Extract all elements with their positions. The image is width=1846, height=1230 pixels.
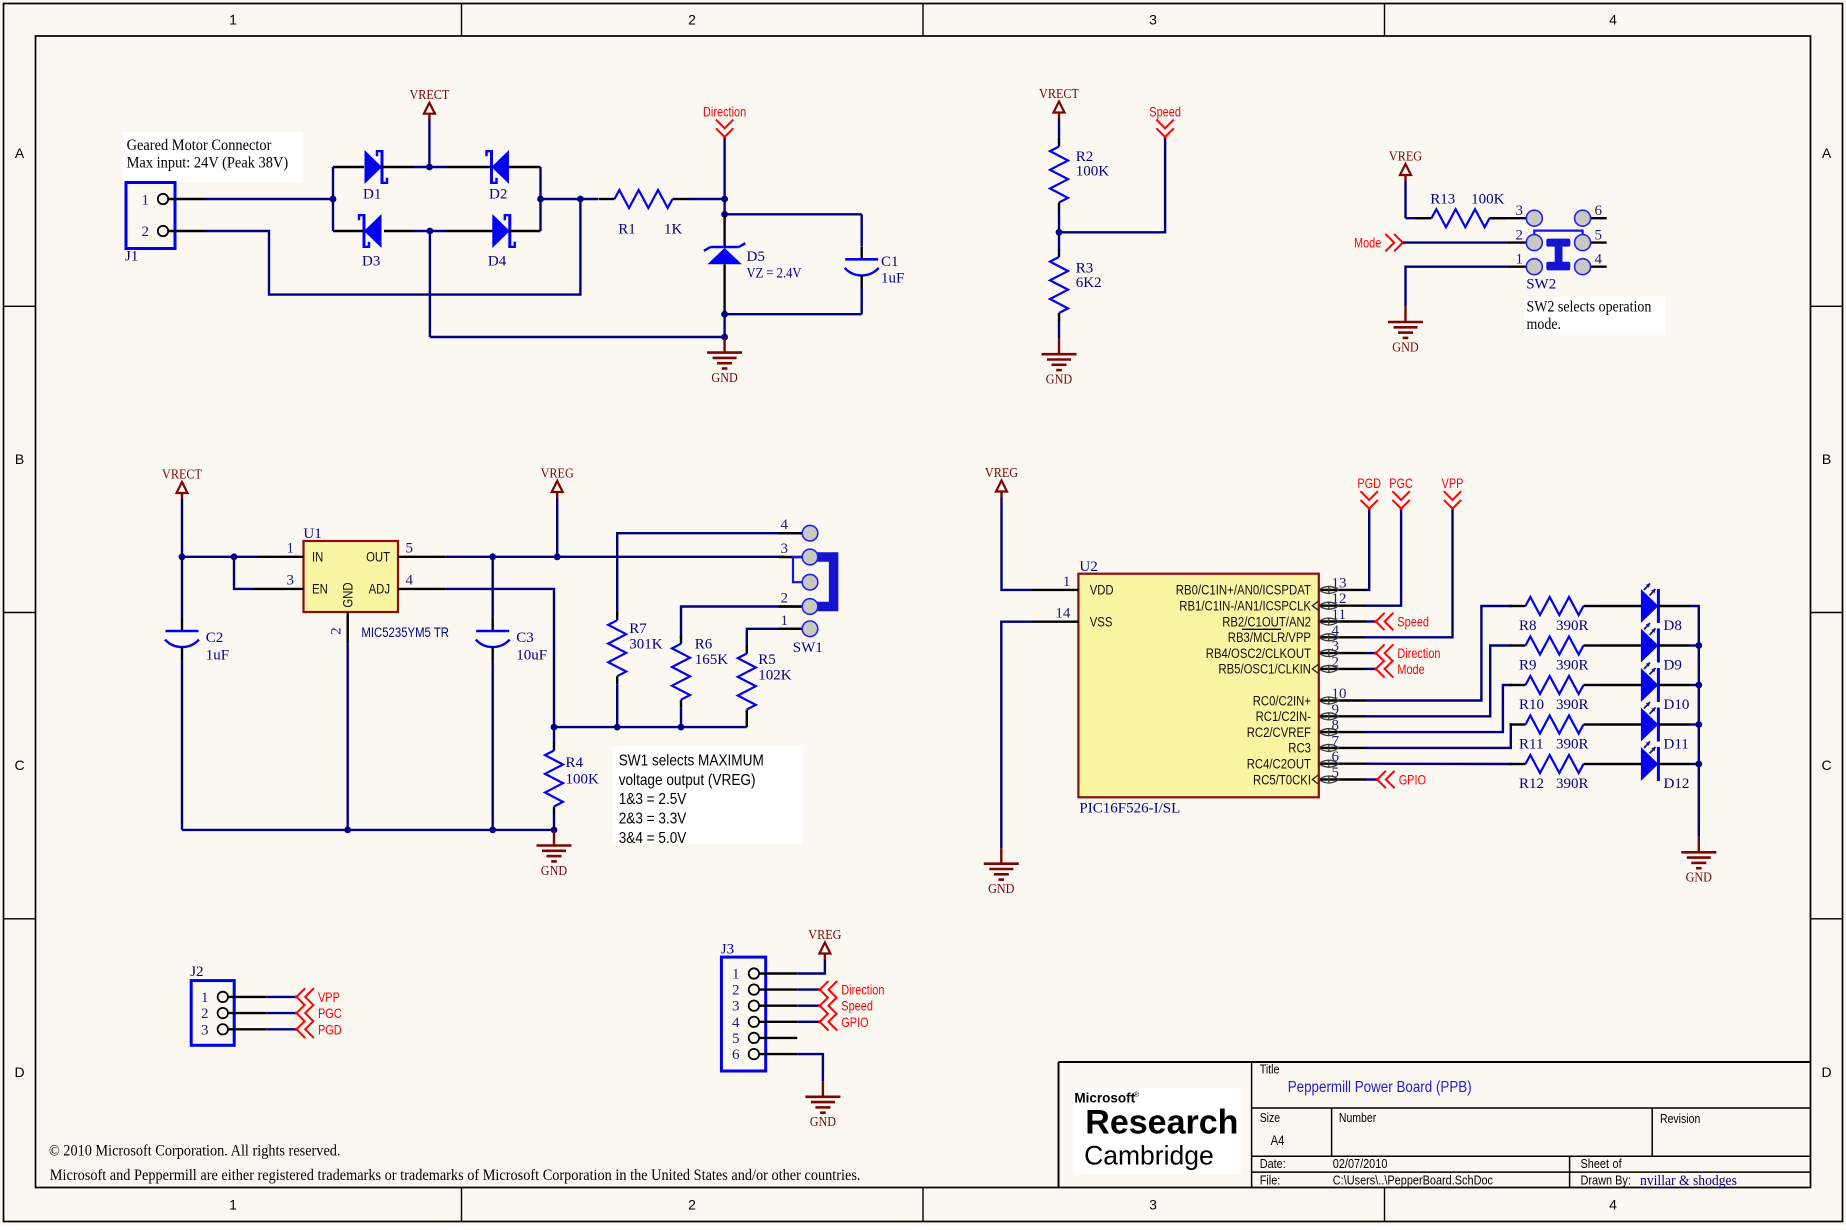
resistor R8 — [1510, 597, 1600, 634]
svg-text:D1: D1 — [363, 186, 381, 202]
wire pin12 to PGC flag — [1366, 509, 1401, 606]
svg-text:U1: U1 — [303, 526, 321, 542]
signal flag Direction — [703, 104, 746, 200]
svg-text:File:: File: — [1260, 1172, 1281, 1187]
svg-text:SW1 selects MAXIMUM: SW1 selects MAXIMUM — [619, 752, 764, 769]
svg-text:C: C — [14, 757, 24, 773]
svg-text:EN: EN — [312, 582, 328, 597]
copyright text — [49, 1143, 861, 1184]
svg-text:1: 1 — [229, 1197, 237, 1213]
wire J2 pin1 to VPP flag — [266, 996, 296, 998]
svg-text:of: of — [1613, 1156, 1622, 1171]
svg-text:RB0/C1IN+/AN0/ICSPDAT: RB0/C1IN+/AN0/ICSPDAT — [1176, 583, 1311, 598]
svg-text:6: 6 — [1595, 203, 1603, 219]
svg-text:VRECT: VRECT — [1039, 87, 1079, 102]
svg-text:VRECT: VRECT — [162, 468, 202, 483]
svg-text:Cambridge: Cambridge — [1084, 1141, 1214, 1171]
svg-text:Title: Title — [1260, 1063, 1280, 1077]
svg-text:1: 1 — [1063, 574, 1071, 590]
wire U1 GND pin to rail — [347, 644, 349, 830]
signal flag PGC (J2) — [295, 1004, 342, 1021]
signal flag Direction (U2) — [1374, 644, 1440, 661]
wire pin9 to LED row2 — [1366, 646, 1512, 717]
svg-text:2: 2 — [201, 1006, 209, 1022]
svg-text:RC3: RC3 — [1288, 741, 1311, 756]
svg-text:390R: 390R — [1556, 618, 1589, 634]
svg-text:R13: R13 — [1430, 192, 1455, 208]
svg-text:RB1/C1IN-/AN1/ICSPCLK: RB1/C1IN-/AN1/ICSPCLK — [1179, 599, 1311, 614]
svg-text:R5: R5 — [758, 652, 776, 668]
wire VREG to R13 — [1406, 217, 1427, 219]
svg-text:4: 4 — [1609, 12, 1617, 28]
svg-text:GND: GND — [1392, 340, 1418, 355]
svg-text:A4: A4 — [1271, 1133, 1285, 1148]
wire pin13 to PGD flag — [1366, 509, 1369, 590]
svg-text:A: A — [1822, 145, 1832, 161]
ground symbol (LED GND) — [1681, 837, 1716, 886]
svg-text:R6: R6 — [695, 637, 713, 653]
svg-text:165K: 165K — [695, 652, 729, 668]
title block text — [1260, 1063, 1738, 1189]
signal flag Speed (U2) — [1374, 613, 1429, 630]
text note: Geared Motor Connector — [123, 132, 303, 183]
svg-text:VREG: VREG — [808, 928, 841, 943]
svg-text:RB3/MCLR/VPP: RB3/MCLR/VPP — [1228, 630, 1311, 645]
svg-text:R10: R10 — [1519, 697, 1544, 713]
ground symbol (U2 GND) — [984, 848, 1019, 897]
svg-text:GND: GND — [1046, 373, 1072, 388]
svg-text:RC4/C2OUT: RC4/C2OUT — [1247, 757, 1311, 772]
svg-text:10: 10 — [1332, 686, 1347, 702]
svg-text:6K2: 6K2 — [1076, 275, 1102, 291]
wire R3 to ground — [1058, 321, 1060, 339]
svg-text:Date:: Date: — [1260, 1156, 1286, 1171]
svg-text:U2: U2 — [1079, 559, 1097, 575]
svg-text:C3: C3 — [516, 630, 534, 646]
svg-text:2: 2 — [1516, 228, 1524, 244]
svg-text:1: 1 — [287, 541, 295, 557]
svg-text:PGD: PGD — [1357, 475, 1381, 491]
wire D8 to cathode rail — [1690, 606, 1699, 646]
svg-text:2: 2 — [329, 627, 345, 635]
svg-text:RC2/CVREF: RC2/CVREF — [1247, 725, 1311, 740]
wire pin2 stub — [1366, 668, 1376, 670]
svg-text:Geared Motor Connector: Geared Motor Connector — [127, 137, 272, 154]
svg-text:1: 1 — [229, 12, 237, 28]
svg-text:A: A — [15, 145, 25, 161]
svg-text:GND: GND — [810, 1115, 836, 1130]
svg-text:J2: J2 — [190, 964, 203, 980]
wire D9 to cathode rail — [1690, 642, 1702, 649]
wire divider to Speed flag — [1059, 138, 1165, 232]
capacitor C1 — [845, 214, 905, 314]
wire D11 to cathode rail — [1690, 721, 1702, 728]
text note: SW2 selects operation mode — [1524, 296, 1665, 335]
svg-text:102K: 102K — [758, 668, 792, 684]
svg-text:GPIO: GPIO — [1399, 772, 1426, 788]
svg-text:R8: R8 — [1519, 618, 1537, 634]
svg-text:VDD: VDD — [1090, 583, 1114, 598]
wire divider middle node — [1056, 211, 1063, 250]
svg-text:3&4 = 5.0V: 3&4 = 5.0V — [619, 830, 687, 847]
svg-text:C:\Users\..\PepperBoard.SchDoc: C:\Users\..\PepperBoard.SchDoc — [1333, 1172, 1494, 1187]
signal flag Speed (J3) — [818, 997, 873, 1014]
svg-text:VZ = 2.4V: VZ = 2.4V — [747, 266, 802, 282]
diode D2 — [446, 150, 541, 202]
signal flag Speed (divider) — [1149, 104, 1181, 139]
diode D1 — [333, 150, 413, 202]
svg-text:R7: R7 — [629, 621, 647, 637]
svg-text:2: 2 — [142, 224, 150, 240]
wire bottom ground rail — [182, 827, 557, 834]
wire bridge top to VRECT junction — [413, 164, 446, 171]
svg-text:RC5/T0CKI: RC5/T0CKI — [1253, 772, 1311, 787]
svg-text:3: 3 — [1149, 12, 1157, 28]
svg-text:GND: GND — [541, 864, 567, 879]
svg-text:PGC: PGC — [1389, 475, 1413, 491]
resistor R7 — [608, 612, 663, 727]
svg-text:D5: D5 — [747, 249, 765, 265]
Microsoft Research Cambridge logo — [1073, 1088, 1241, 1175]
svg-text:100K: 100K — [1471, 192, 1505, 208]
svg-text:390R: 390R — [1556, 697, 1589, 713]
connector J1 — [125, 183, 206, 265]
svg-text:390R: 390R — [1556, 658, 1589, 674]
title block frame — [1059, 1062, 1811, 1188]
ground symbol (divider GND) — [1042, 339, 1077, 388]
svg-text:VSS: VSS — [1090, 615, 1113, 630]
svg-text:Microsoft and Peppermill are e: Microsoft and Peppermill are either regi… — [50, 1167, 861, 1184]
svg-text:Speed: Speed — [841, 998, 873, 1014]
wire pin10 to LED row1 — [1366, 606, 1512, 701]
svg-text:1: 1 — [142, 193, 150, 209]
svg-text:PGC: PGC — [318, 1005, 342, 1021]
wire SW1 pin4 to R7 — [617, 533, 802, 614]
svg-text:13: 13 — [1332, 575, 1347, 591]
svg-text:2: 2 — [688, 1197, 696, 1213]
svg-text:14: 14 — [1055, 606, 1071, 622]
wire pin11 stub — [1366, 620, 1376, 622]
resistor R3 — [1050, 249, 1102, 321]
resistor R4 — [545, 727, 599, 830]
svg-text:mode.: mode. — [1527, 316, 1562, 333]
svg-text:D2: D2 — [489, 186, 507, 202]
wire J1 pin1 to bridge — [206, 198, 333, 200]
svg-text:1: 1 — [201, 990, 209, 1006]
svg-text:Drawn By:: Drawn By: — [1581, 1172, 1631, 1187]
resistor R5 — [738, 646, 792, 728]
switch SW1 — [779, 517, 834, 656]
signal flag GPIO (J3) — [818, 1013, 868, 1030]
svg-text:11: 11 — [1332, 607, 1346, 623]
connector J3 — [721, 942, 798, 1072]
wire pin5 stub — [1366, 778, 1377, 780]
power port VRECT (bridge output) — [409, 88, 449, 167]
svg-text:Sheet: Sheet — [1581, 1156, 1610, 1171]
wire pin6 to LED row5 — [1366, 763, 1512, 766]
wire clamp top rail — [725, 213, 862, 215]
svg-text:Speed: Speed — [1397, 614, 1429, 630]
node: bridge left vertical wire — [330, 167, 337, 231]
svg-text:1K: 1K — [664, 221, 683, 237]
svg-text:voltage output (VREG): voltage output (VREG) — [619, 772, 756, 789]
svg-text:301K: 301K — [629, 637, 663, 653]
svg-text:10uF: 10uF — [516, 648, 547, 664]
svg-text:VREG: VREG — [1389, 150, 1422, 165]
LED D12 — [1600, 742, 1691, 793]
signal flag Direction (J3) — [818, 981, 884, 998]
svg-text:390R: 390R — [1556, 737, 1589, 753]
svg-text:4: 4 — [1595, 252, 1603, 268]
svg-text:5: 5 — [1595, 228, 1603, 244]
svg-text:6: 6 — [732, 1047, 740, 1063]
node: bridge right vertical wire — [537, 167, 544, 231]
signal flag VPP — [1442, 475, 1464, 510]
svg-text:RB2/C1OUT/AN2: RB2/C1OUT/AN2 — [1222, 614, 1311, 629]
ground symbol (bridge/clamp GND) — [707, 337, 742, 386]
power port VREG (U2 supply) — [985, 466, 1032, 590]
connector J2 — [190, 964, 266, 1045]
wire J3 pin4 to GPIO flag — [797, 1021, 820, 1023]
regulator U1 — [254, 526, 449, 644]
svg-text:D4: D4 — [488, 254, 507, 270]
wire Direction node down to clamp — [721, 199, 728, 218]
resistor R12 — [1510, 755, 1600, 792]
svg-text:1&3 = 2.5V: 1&3 = 2.5V — [619, 791, 687, 808]
wire GND to SW2 pin1 — [1406, 267, 1527, 307]
svg-text:PGD: PGD — [318, 1021, 342, 1037]
svg-text:GND: GND — [988, 882, 1014, 897]
wire J3 pin6 to ground — [797, 1054, 823, 1081]
LED D9 — [1600, 623, 1691, 674]
svg-text:D: D — [1821, 1064, 1831, 1080]
svg-text:SW1: SW1 — [793, 640, 823, 656]
resistor R9 — [1510, 637, 1600, 674]
svg-text:R4: R4 — [566, 755, 584, 771]
ground symbol (J3 GND) — [805, 1081, 840, 1130]
resistor R2 — [1050, 139, 1109, 211]
zener diode D5 — [704, 214, 802, 314]
svg-text:RC1/C2IN-: RC1/C2IN- — [1256, 709, 1311, 724]
svg-text:D12: D12 — [1664, 776, 1690, 792]
LED D11 — [1600, 702, 1691, 753]
svg-text:5: 5 — [732, 1031, 740, 1047]
svg-text:SW2 selects operation: SW2 selects operation — [1527, 299, 1652, 316]
svg-text:PIC16F526-I/SL: PIC16F526-I/SL — [1079, 801, 1180, 817]
wire bridge output to R1 — [541, 196, 599, 203]
svg-text:VREG: VREG — [541, 467, 574, 482]
wire U1 ADJ to feedback rail — [446, 589, 554, 727]
svg-text:2: 2 — [781, 591, 789, 607]
diode D4 — [446, 214, 541, 270]
wire SW1 pin2 to R6 — [681, 607, 802, 638]
signal flag VPP (J2) — [295, 988, 340, 1005]
svg-text:3: 3 — [287, 573, 295, 589]
svg-text:®: ® — [1134, 1090, 1140, 1099]
svg-text:R1: R1 — [618, 221, 636, 237]
power port VREG (regulator output) — [541, 467, 574, 557]
resistor R11 — [1510, 716, 1600, 753]
svg-text:Revision: Revision — [1660, 1112, 1700, 1126]
svg-text:C1: C1 — [881, 254, 899, 270]
svg-text:VREG: VREG — [985, 466, 1018, 481]
power port VRECT (regulator input) — [162, 468, 202, 557]
svg-text:GND: GND — [1686, 871, 1712, 886]
svg-text:390R: 390R — [1556, 776, 1589, 792]
svg-text:02/07/2010: 02/07/2010 — [1333, 1156, 1388, 1171]
svg-text:GND: GND — [341, 582, 356, 607]
power port VRECT (divider) — [1039, 87, 1079, 140]
wire LED cathode rail to ground — [1698, 646, 1700, 837]
svg-text:1: 1 — [781, 613, 789, 629]
svg-text:4: 4 — [406, 573, 414, 589]
svg-text:Number: Number — [1339, 1111, 1376, 1125]
svg-text:3: 3 — [1516, 203, 1524, 219]
wire bridge bottom to GND junction — [414, 228, 446, 235]
wire feedback rail — [551, 724, 747, 731]
wire U1 OUT rail (VREG) — [446, 553, 784, 560]
svg-text:MIC5235YM5 TR: MIC5235YM5 TR — [361, 625, 449, 640]
power port VREG (SW2) — [1389, 150, 1422, 219]
svg-text:Direction: Direction — [1397, 645, 1440, 661]
wire pin3 stub — [1366, 652, 1376, 654]
ground symbol (SW2 GND) — [1388, 306, 1423, 355]
wire EN branch — [234, 557, 254, 589]
switch SW2 — [1516, 203, 1607, 293]
svg-text:3: 3 — [1149, 1197, 1157, 1213]
signal flag PGD — [1357, 475, 1381, 510]
resistor R1 — [599, 190, 689, 237]
svg-text:B: B — [15, 451, 24, 467]
svg-text:4: 4 — [732, 1015, 740, 1031]
svg-text:J3: J3 — [721, 942, 734, 958]
capacitor C2 — [165, 557, 229, 830]
microcontroller U2 — [1031, 559, 1366, 817]
svg-text:nvillar & shodges: nvillar & shodges — [1640, 1173, 1737, 1189]
ground symbol (regulator GND) — [537, 830, 572, 879]
svg-text:3: 3 — [201, 1022, 209, 1038]
svg-text:Research: Research — [1085, 1104, 1238, 1142]
svg-text:3: 3 — [732, 999, 740, 1015]
svg-text:4: 4 — [781, 517, 789, 533]
svg-text:12: 12 — [1332, 591, 1347, 607]
svg-text:100K: 100K — [566, 772, 600, 788]
svg-text:R12: R12 — [1519, 776, 1544, 792]
svg-text:5: 5 — [406, 541, 414, 557]
svg-text:1: 1 — [732, 967, 740, 983]
text note: SW1 selects maximum voltage — [613, 746, 803, 847]
svg-text:RB5/OSC1/CLKIN: RB5/OSC1/CLKIN — [1218, 662, 1311, 677]
LED D8 — [1600, 584, 1691, 635]
LED D10 — [1600, 663, 1691, 714]
resistor R10 — [1510, 676, 1600, 713]
svg-text:C: C — [1821, 757, 1831, 773]
svg-text:100K: 100K — [1076, 164, 1110, 180]
wire J2 pin3 to PGD flag — [266, 1028, 296, 1030]
svg-text:2&3 = 3.3V: 2&3 = 3.3V — [619, 811, 687, 828]
svg-text:R9: R9 — [1519, 658, 1537, 674]
svg-text:Max input: 24V (Peak 38V): Max input: 24V (Peak 38V) — [127, 154, 289, 171]
svg-text:D11: D11 — [1664, 737, 1689, 753]
svg-text:Speed: Speed — [1149, 104, 1181, 120]
svg-text:D9: D9 — [1664, 658, 1682, 674]
wire Mode to SW2 pin2 — [1403, 241, 1526, 243]
wire J3 pin1 to VREG — [797, 960, 825, 974]
wire J2 pin2 to PGC flag — [266, 1012, 296, 1014]
resistor R13 — [1416, 192, 1506, 228]
signal flag PGC — [1389, 475, 1413, 510]
svg-text:R11: R11 — [1519, 737, 1543, 753]
svg-text:Size: Size — [1260, 1111, 1280, 1125]
power port VREG (J3) — [808, 928, 841, 960]
wire pin4 to VPP flag — [1366, 509, 1453, 638]
wire clamp bottom rail — [721, 311, 862, 318]
svg-text:1uF: 1uF — [206, 648, 229, 664]
svg-text:Peppermill Power Board (PPB): Peppermill Power Board (PPB) — [1288, 1079, 1472, 1096]
svg-text:RB4/OSC2/CLKOUT: RB4/OSC2/CLKOUT — [1206, 646, 1311, 661]
svg-text:Direction: Direction — [703, 104, 746, 120]
svg-text:© 2010 Microsoft Corporation.: © 2010 Microsoft Corporation. All rights… — [49, 1143, 341, 1160]
svg-text:VRECT: VRECT — [409, 88, 449, 103]
wire VSS to ground — [1001, 622, 1031, 848]
svg-text:Mode: Mode — [1354, 235, 1381, 251]
svg-text:D8: D8 — [1664, 618, 1682, 634]
wire bridge GND rail — [430, 231, 725, 337]
wire J3 pin2 to Direction flag — [797, 988, 820, 990]
svg-text:C2: C2 — [206, 630, 224, 646]
svg-text:SW2: SW2 — [1526, 277, 1556, 293]
wire D10 to cathode rail — [1690, 682, 1702, 689]
wire R13 to SW2 pin3 — [1490, 217, 1527, 219]
svg-text:GND: GND — [711, 371, 737, 386]
svg-text:ADJ: ADJ — [369, 582, 390, 597]
svg-text:Direction: Direction — [841, 982, 884, 998]
wire pin7 to LED row4 — [1366, 725, 1512, 748]
signal flag GPIO (U2) — [1376, 771, 1426, 788]
svg-text:J1: J1 — [125, 249, 138, 265]
svg-text:D: D — [14, 1064, 24, 1080]
signal flag Mode (U2) — [1374, 660, 1424, 677]
svg-text:1: 1 — [1516, 252, 1524, 268]
svg-text:GPIO: GPIO — [841, 1014, 868, 1030]
wire pin8 to LED row3 — [1366, 685, 1512, 732]
wire R1 to Direction node — [689, 196, 728, 203]
svg-text:2: 2 — [688, 12, 696, 28]
wire J3 pin3 to Speed flag — [797, 1005, 820, 1007]
signal flag Mode (SW2) — [1354, 234, 1404, 251]
svg-text:Mode: Mode — [1397, 661, 1424, 677]
svg-text:4: 4 — [1609, 1197, 1617, 1213]
svg-text:OUT: OUT — [366, 550, 390, 565]
capacitor C3 — [476, 557, 547, 830]
svg-text:1uF: 1uF — [881, 271, 904, 287]
diode D3 — [333, 214, 414, 270]
svg-text:VPP: VPP — [318, 989, 340, 1005]
svg-text:IN: IN — [312, 550, 323, 565]
wire J1 pin2 feedback path — [206, 199, 580, 295]
wire clamp to ground rail — [721, 314, 728, 340]
signal flag PGD (J2) — [295, 1021, 342, 1038]
wire SW1 pin1 to R5 — [747, 629, 802, 648]
svg-text:2: 2 — [732, 983, 740, 999]
svg-text:D3: D3 — [362, 254, 380, 270]
svg-text:RC0/C2IN+: RC0/C2IN+ — [1253, 693, 1311, 708]
svg-text:VPP: VPP — [1442, 475, 1464, 491]
wire D12 to cathode rail — [1690, 761, 1702, 768]
svg-text:B: B — [1822, 451, 1831, 467]
wire VRECT node to U1 IN — [179, 553, 258, 560]
resistor R6 — [672, 636, 728, 727]
